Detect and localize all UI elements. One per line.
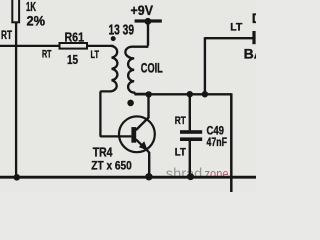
svg-text:TR4: TR4 [93, 144, 113, 159]
svg-text:ZT x 650: ZT x 650 [91, 158, 132, 172]
wire: main horizontal LT net (right of R61) [86, 45, 114, 47]
junction dot (C49 on rail) [187, 173, 194, 180]
wire: +9V drop to secondary top [147, 21, 149, 46]
svg-text:LT: LT [230, 21, 242, 33]
svg-text:LT: LT [91, 49, 100, 61]
transistor TR4 emitter stroke [136, 139, 149, 152]
wire: C49 bottom lead [189, 141, 191, 177]
svg-text:LT: LT [175, 147, 186, 159]
svg-text:RT: RT [1, 30, 12, 42]
paper background [0, 0, 256, 192]
phase dot (primary top) [111, 36, 116, 41]
junction dot (right branch) [202, 91, 208, 97]
diode D terminal bar (cut at edge) [252, 31, 255, 44]
svg-text:15: 15 [67, 53, 78, 67]
wire: bus turn-down to bottom edge [230, 93, 233, 192]
transformer COIL primary winding (left) [100, 46, 131, 136]
capacitor C49 top plate [180, 130, 202, 134]
transistor TR4 collector stroke [136, 117, 149, 130]
junction dot (C49 top) [187, 91, 193, 97]
wire: R1 lead / left vertical to ground rail [15, 22, 17, 177]
resistor R1 1K (top left, vertical) [12, 0, 19, 22]
transformer COIL secondary winding (right) [125, 47, 148, 94]
svg-text:COIL: COIL [141, 60, 163, 76]
transistor TR4 emitter arrow [139, 141, 148, 150]
svg-text:zone: zone [205, 166, 229, 182]
svg-text:BA: BA [244, 45, 256, 61]
svg-text:2%: 2% [27, 13, 46, 28]
wire: right vertical from LT wire down to bus [204, 37, 206, 94]
watermark shrad zone [166, 166, 229, 183]
svg-text:R61: R61 [65, 29, 85, 44]
svg-text:D: D [252, 11, 256, 26]
supply +9V bar [135, 19, 162, 22]
capacitor C49 bottom plate [180, 137, 202, 141]
svg-text:RT: RT [175, 115, 186, 127]
svg-text:47nF: 47nF [207, 135, 228, 149]
resistor R61 15 (horizontal) [60, 43, 88, 49]
wire: bottom ground rail [0, 176, 256, 179]
wire: collector drop [147, 93, 149, 118]
svg-text:13 39: 13 39 [109, 22, 135, 39]
transistor TR4 circle [119, 116, 155, 152]
junction dot (emitter on rail) [145, 173, 152, 180]
svg-text:shrad: shrad [166, 167, 203, 183]
svg-text:1K: 1K [26, 0, 36, 14]
svg-text:+9V: +9V [131, 2, 154, 18]
junction dot on +9V bar [145, 18, 152, 25]
wire: main horizontal RT net (left of R61) [0, 45, 60, 47]
wire: emitter drop to rail [148, 152, 150, 177]
transistor TR4 base bar [131, 127, 136, 143]
wire: C49 top lead [189, 94, 191, 130]
wire: top right horizontal LT net [205, 37, 253, 39]
junction dot (collector) [146, 91, 152, 97]
wire: collector bus (horizontal y=94.3) [135, 93, 232, 95]
junction dot (R1 lead on rail) [13, 174, 20, 181]
svg-text:RT: RT [42, 48, 52, 60]
phase dot (secondary bottom) [127, 100, 134, 107]
